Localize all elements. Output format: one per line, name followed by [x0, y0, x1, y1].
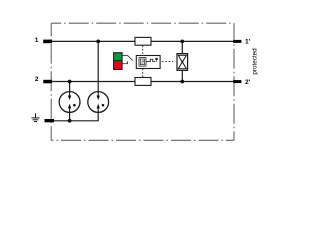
svg-text:ϑ: ϑ: [141, 60, 144, 65]
svg-text:2: 2: [35, 76, 39, 83]
svg-text:1': 1': [245, 39, 251, 46]
svg-text:protected: protected: [252, 48, 259, 75]
svg-text:2': 2': [245, 79, 251, 86]
svg-text:1: 1: [35, 37, 39, 44]
